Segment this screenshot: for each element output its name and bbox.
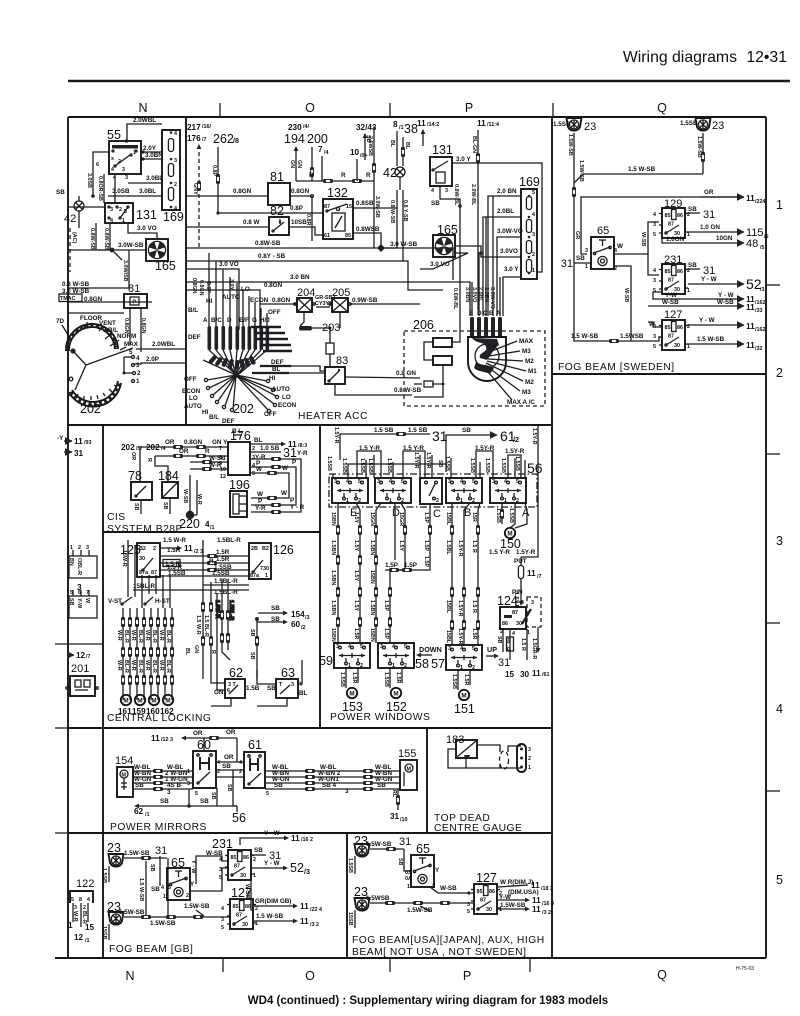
svg-text:Y - W: Y - W — [718, 292, 734, 299]
svg-text:V-ST: V-ST — [108, 598, 122, 605]
svg-text:/2: /2 — [301, 625, 306, 631]
junction diamond W-SB — [377, 241, 418, 252]
bar letters — [203, 317, 270, 324]
svg-text:4: 4 — [653, 212, 656, 218]
svg-text:W-R: W-R — [158, 660, 164, 671]
arrow 11/224 — [700, 194, 766, 205]
svg-text:OR: OR — [130, 452, 136, 460]
wire 3.0W-SB to fan — [68, 242, 146, 260]
wire 231 Y-W to 52/3 — [252, 860, 310, 876]
svg-text:31: 31 — [399, 836, 411, 848]
left column separator stubs — [55, 727, 68, 729]
svg-text:W-SB: W-SB — [182, 489, 188, 503]
svg-text:2: 2 — [153, 546, 156, 552]
svg-text:1.5P: 1.5P — [385, 562, 398, 569]
node GR riser — [574, 189, 744, 254]
ignition connector bundle E D C B A — [464, 196, 502, 337]
svg-text:M2: M2 — [525, 358, 534, 365]
bottom wire to 127 — [366, 895, 474, 914]
svg-text:R: R — [146, 458, 152, 462]
connector on lamp23L wire — [572, 187, 576, 197]
svg-text:SB: SB — [254, 847, 263, 854]
wires 131 bottom down — [89, 223, 110, 250]
wire W R(DIM J) to 11/183 — [498, 879, 553, 896]
svg-text:M3: M3 — [522, 348, 531, 355]
svg-text:1.5Y-R: 1.5Y-R — [475, 445, 495, 452]
svg-text:W-R: W-R — [116, 660, 122, 671]
svg-text:1.5R: 1.5R — [351, 672, 357, 683]
svg-text:0.8GN: 0.8GN — [264, 282, 283, 289]
svg-text:Y-W: Y-W — [499, 894, 511, 901]
svg-text:86: 86 — [502, 621, 508, 627]
svg-text:87a: 87a — [250, 573, 260, 579]
svg-text:TMAC: TMAC — [60, 296, 76, 302]
node 11/12:3 feed OR — [151, 729, 237, 762]
svg-text:1.5Y-R: 1.5Y-R — [333, 427, 339, 444]
svg-text:1.5Y-R: 1.5Y-R — [531, 428, 537, 445]
rows 125-126 — [160, 537, 249, 577]
frame bottom — [55, 957, 766, 959]
wire 231 SB to 31 — [252, 847, 281, 862]
svg-text:1.5 W-SB: 1.5 W-SB — [628, 166, 656, 173]
fuses on 126 wires — [220, 610, 230, 643]
svg-text:0.8W-BL: 0.8W-BL — [453, 184, 459, 206]
link wires Y-R row1 — [357, 445, 525, 478]
svg-text:1.5 R: 1.5 R — [471, 600, 477, 613]
wire 169R pin1 3.0Y — [503, 266, 521, 316]
dummy switch C — [420, 478, 442, 520]
node SB junction — [249, 605, 310, 679]
svg-text:/8: /8 — [233, 136, 239, 145]
svg-text:R: R — [366, 172, 371, 179]
svg-text:B L: B L — [232, 428, 242, 435]
dashed box 206 — [404, 318, 545, 406]
relay 201 — [66, 676, 98, 696]
svg-text:127: 127 — [476, 871, 497, 885]
svg-text:12: 12 — [76, 651, 86, 660]
wire lamp to 65 — [124, 850, 167, 860]
riser from top lamp wire to bottom — [166, 858, 169, 919]
svg-text:BL-R: BL-R — [123, 660, 129, 673]
feed 32/43 — [356, 123, 377, 160]
svg-text:AUTO: AUTO — [184, 403, 202, 410]
svg-text:153: 153 — [342, 700, 363, 714]
svg-text:3.0W-SB: 3.0W-SB — [118, 242, 144, 249]
svg-text:126: 126 — [273, 543, 294, 557]
fuses on 62 columns — [184, 558, 224, 696]
svg-text:POWER MIRRORS: POWER MIRRORS — [110, 822, 207, 833]
staircase wires to right — [251, 327, 292, 351]
svg-text:SYSTEM B28F: SYSTEM B28F — [107, 524, 182, 535]
wire row OR to 176 pin7 — [130, 439, 228, 482]
wire 169R pin5 2.0BN — [488, 188, 521, 316]
window switch E — [332, 478, 368, 519]
feed 2.5WSB down — [367, 127, 380, 248]
svg-text:3.0Y: 3.0Y — [228, 279, 234, 290]
wire 231 pin1 down to 127 — [244, 874, 254, 910]
svg-text:11: 11 — [746, 303, 755, 312]
fog lamp 23 lower USA — [347, 885, 370, 928]
svg-text:3: 3 — [86, 545, 89, 551]
svg-text:5: 5 — [266, 791, 269, 797]
svg-text:0.8GN: 0.8GN — [272, 297, 291, 304]
svg-text:0.8P: 0.8P — [205, 282, 211, 293]
feeds 230/194 200 — [284, 123, 328, 181]
svg-text:P: P — [465, 101, 473, 115]
svg-text:15GR: 15GR — [398, 512, 404, 526]
svg-text:87: 87 — [512, 610, 518, 616]
svg-text:6: 6 — [96, 162, 99, 168]
svg-text:3: 3 — [174, 158, 177, 164]
relay 132 — [323, 186, 353, 239]
relay 127 (sweden) — [649, 309, 690, 350]
wire 129 pin1 1.0GN to 115/5 — [688, 224, 769, 240]
wire 62/1 SB — [134, 788, 217, 818]
svg-text:BL-R: BL-R — [151, 630, 157, 643]
svg-text:3.0 BN: 3.0 BN — [290, 274, 310, 281]
svg-text:1.5SB: 1.5SB — [508, 508, 514, 523]
svg-text:7: 7 — [318, 145, 323, 154]
svg-text:162: 162 — [160, 707, 174, 716]
window switch A — [490, 478, 530, 519]
svg-text:B2: B2 — [139, 546, 146, 552]
svg-text:56: 56 — [232, 811, 246, 825]
wire 0.6W-BL down — [452, 206, 460, 331]
svg-text:165: 165 — [437, 223, 458, 237]
mirror switch 61 — [239, 738, 269, 797]
ignition switch 206 body — [468, 337, 506, 381]
svg-text:15BL: 15BL — [445, 630, 451, 644]
node 31 to sw65 — [561, 255, 591, 270]
svg-text:202: 202 — [121, 443, 135, 452]
node 12/7 201 — [68, 651, 91, 675]
svg-text:15SB: 15SB — [347, 912, 353, 926]
svg-text:GN: GN — [296, 160, 302, 168]
svg-text:SB: SB — [496, 636, 502, 644]
svg-text:DEF: DEF — [222, 418, 235, 425]
svg-text:10: 10 — [220, 467, 226, 473]
svg-text:2: 2 — [174, 182, 177, 188]
wire 65 pin2 to 231 — [190, 856, 228, 891]
svg-text:OFF: OFF — [264, 411, 277, 418]
feed 217/176 — [187, 123, 211, 250]
mirror motor 155 — [398, 748, 417, 790]
svg-text:1.5BN: 1.5BN — [330, 540, 336, 555]
svg-text:5: 5 — [124, 209, 127, 215]
hub — [233, 372, 239, 378]
relay 81 (mid) — [268, 170, 290, 205]
svg-text:11: 11 — [417, 119, 426, 128]
svg-text:4: 4 — [174, 131, 177, 137]
svg-text:11: 11 — [300, 917, 309, 926]
svg-text:SB: SB — [249, 652, 255, 660]
connector on lamp23R wire — [701, 152, 705, 162]
svg-text:W-SB: W-SB — [440, 885, 457, 892]
svg-text:1: 1 — [687, 232, 690, 238]
svg-text:1.5 W-SB: 1.5 W-SB — [571, 333, 599, 340]
svg-text:2: 2 — [776, 366, 783, 380]
svg-text:31: 31 — [155, 845, 167, 857]
svg-text:4: 4 — [776, 702, 783, 716]
svg-text:4: 4 — [221, 906, 224, 912]
dial contacts — [123, 349, 142, 385]
svg-text:BL: BL — [389, 140, 395, 148]
svg-text:31: 31 — [74, 449, 84, 458]
svg-text:55: 55 — [107, 128, 121, 142]
svg-text:GR: GR — [704, 189, 714, 196]
svg-text:65: 65 — [416, 842, 430, 856]
heater internal divider N/O — [185, 117, 187, 425]
svg-text:/3: /3 — [304, 867, 310, 876]
svg-text:4: 4 — [136, 355, 140, 362]
svg-text:1.5W-SB: 1.5W-SB — [150, 920, 176, 927]
wire row R to 176 pin8 — [146, 448, 228, 482]
DEF bar — [260, 359, 291, 366]
svg-text:/3: /3 — [305, 615, 310, 621]
svg-text:8: 8 — [79, 897, 82, 903]
svg-text:3.0W/SB: 3.0W/SB — [122, 260, 128, 282]
svg-text:5: 5 — [221, 925, 224, 931]
bar to hub converging wires — [209, 350, 267, 374]
svg-text:3.0W-VO: 3.0W-VO — [489, 287, 495, 309]
svg-text:5: 5 — [653, 344, 656, 350]
svg-text:0.8Y - SB: 0.8Y - SB — [258, 253, 286, 260]
svg-text:N: N — [138, 101, 147, 115]
svg-text:Y - W: Y - W — [701, 276, 717, 283]
motor 150 — [500, 528, 521, 551]
svg-text:H/J: H/J — [260, 317, 270, 324]
svg-text:1.5SB: 1.5SB — [212, 570, 230, 577]
svg-text:1.5 SB: 1.5 SB — [374, 427, 394, 434]
svg-text:NORM: NORM — [117, 333, 136, 340]
svg-text:4: 4 — [532, 212, 535, 218]
relay 127 GB — [221, 886, 258, 931]
svg-text:52: 52 — [290, 861, 304, 875]
dashed wire (AC) — [70, 228, 77, 272]
svg-text:1: 1 — [70, 545, 73, 551]
svg-text:/11:4: /11:4 — [487, 122, 499, 128]
feed 262/8 — [211, 132, 239, 213]
feed 10/0+ — [350, 148, 368, 181]
svg-text:GN: GN — [214, 689, 224, 696]
svg-text:BL-R: BL-R — [123, 630, 129, 643]
wire 3.0SB / 3.0BL row — [108, 188, 162, 196]
svg-text:SB: SB — [267, 685, 276, 692]
wire 169R pin4 2.0BL — [483, 208, 521, 316]
svg-text:60: 60 — [291, 620, 301, 629]
wire 127 pin1 1.5W-SB to 11/32 — [688, 336, 763, 352]
svg-text:0.8P: 0.8P — [290, 205, 303, 212]
svg-text:160: 160 — [146, 707, 160, 716]
svg-text:6: 6 — [78, 590, 81, 596]
svg-text:5: 5 — [653, 232, 656, 238]
svg-text:SB: SB — [149, 864, 155, 872]
svg-text:1.5W-SB: 1.5W-SB — [366, 841, 392, 848]
bus 0.8GN low — [186, 282, 283, 330]
svg-text:83: 83 — [336, 355, 348, 367]
svg-text:2.0P: 2.0P — [146, 356, 159, 363]
svg-text:HI: HI — [269, 375, 276, 382]
svg-text:3: 3 — [125, 175, 128, 181]
svg-text:SB: SB — [688, 206, 697, 213]
svg-text:82: 82 — [270, 204, 284, 218]
column ticks top — [219, 103, 221, 116]
svg-text:5: 5 — [532, 190, 535, 196]
svg-text:/4: /4 — [324, 150, 329, 156]
svg-text:65: 65 — [597, 225, 609, 237]
svg-text:GR: GR — [574, 231, 580, 239]
svg-text:31: 31 — [390, 812, 400, 821]
svg-text:217: 217 — [187, 123, 201, 132]
svg-text:SB: SB — [377, 782, 386, 789]
svg-text:10: 10 — [350, 148, 360, 157]
svg-text:11: 11 — [746, 341, 755, 350]
svg-text:5: 5 — [521, 600, 524, 606]
svg-text:OR: OR — [193, 730, 203, 737]
wire bottom 1.5W-SB lamps to 127 pin3 — [571, 333, 662, 341]
column ticks bottom — [222, 958, 224, 972]
svg-text:3: 3 — [531, 600, 534, 606]
svg-text:SB: SB — [271, 605, 280, 612]
DOWN / UP labels — [416, 645, 499, 658]
svg-text:1.5BN: 1.5BN — [369, 540, 375, 555]
connector 3 — [68, 545, 97, 592]
svg-text:1.5SB: 1.5SB — [484, 458, 490, 473]
svg-text:31: 31 — [283, 446, 297, 460]
svg-text:11: 11 — [74, 437, 83, 446]
206 internal wires — [414, 342, 445, 397]
frame left — [67, 117, 69, 958]
svg-text:/5: /5 — [760, 245, 765, 251]
svg-text:1: 1 — [585, 264, 588, 270]
svg-text:1.5W-SB: 1.5W-SB — [500, 902, 526, 909]
svg-text:BN: BN — [68, 558, 74, 566]
svg-text:W-R: W-R — [130, 660, 136, 671]
svg-text:122: 122 — [76, 878, 94, 890]
ignition switch label fan — [483, 341, 526, 400]
svg-text:2.0Y: 2.0Y — [143, 145, 157, 152]
svg-text:/1: /1 — [145, 812, 150, 818]
svg-text:/16 3: /16 3 — [542, 901, 554, 907]
wire 83 to 206 0.8GN — [345, 370, 420, 378]
svg-text:2B: 2B — [251, 546, 258, 552]
svg-text:203: 203 — [322, 322, 340, 334]
svg-text:AUTO: AUTO — [222, 294, 240, 301]
switch 65 GB — [151, 856, 195, 900]
svg-text:15SB: 15SB — [101, 926, 107, 940]
svg-text:SB: SB — [222, 763, 231, 770]
svg-text:230: 230 — [288, 123, 302, 132]
svg-text:3: 3 — [532, 232, 535, 238]
wire BL bar to 83 — [289, 372, 325, 374]
svg-text:BL-R: BL-R — [137, 660, 143, 673]
wire 132 right 0.8SB — [353, 200, 397, 208]
svg-text:10SB: 10SB — [291, 219, 307, 226]
svg-text:2: 2 — [119, 207, 122, 213]
svg-text:1.5R: 1.5R — [216, 556, 230, 563]
motor 152 — [383, 668, 407, 714]
svg-text:169: 169 — [519, 175, 540, 189]
connector on GNY wire — [197, 181, 201, 191]
svg-text:MAX: MAX — [519, 338, 534, 345]
relay 63 — [267, 666, 308, 698]
wire 0.8W-BL — [431, 184, 462, 208]
svg-text:/93: /93 — [84, 440, 92, 446]
svg-text:61: 61 — [324, 233, 330, 239]
svg-text:220: 220 — [179, 517, 200, 531]
R resistor row — [296, 172, 374, 183]
svg-text:1.0 SB: 1.0 SB — [260, 445, 280, 452]
svg-text:61: 61 — [248, 738, 262, 752]
wire Y-W top to 11/162 — [190, 830, 313, 874]
svg-text:3.0W-VO: 3.0W-VO — [497, 228, 523, 235]
wire row W-R to 176 pin10 — [190, 462, 228, 471]
svg-text:3: 3 — [167, 789, 171, 796]
actuator wire fuses — [121, 617, 174, 685]
wire run B pin5 / R — [478, 503, 480, 645]
svg-text:P: P — [463, 969, 471, 983]
svg-text:/3: /3 — [760, 287, 765, 293]
svg-text:152: 152 — [386, 700, 407, 714]
wire Y-W to 11/163 — [498, 894, 554, 907]
connector 5 6 7 — [68, 590, 97, 618]
svg-text:R: R — [209, 558, 214, 565]
svg-text:VENT: VENT — [99, 320, 116, 327]
switch 82 — [269, 204, 289, 235]
svg-text:GN: GN — [289, 160, 295, 168]
svg-text:31: 31 — [498, 657, 510, 669]
connector on 262 wire — [216, 174, 220, 184]
connector 196 — [229, 478, 250, 517]
svg-text:1.5R: 1.5R — [395, 672, 401, 683]
svg-text:2.0W-BL: 2.0W-BL — [470, 184, 476, 206]
relay 131 (left) — [105, 203, 157, 224]
svg-text:1.5BL-R: 1.5BL-R — [217, 537, 241, 544]
svg-text:2: 2 — [500, 629, 503, 635]
svg-text:30: 30 — [139, 556, 145, 562]
bus 3.0VO — [186, 261, 239, 330]
svg-text:1.5SB: 1.5SB — [347, 858, 353, 873]
relay 55 — [107, 128, 141, 181]
svg-text:/162: /162 — [755, 300, 766, 306]
svg-text:127: 127 — [231, 886, 252, 900]
svg-text:SB: SB — [226, 784, 232, 792]
frame top — [68, 116, 766, 118]
node junction 93,196 — [91, 194, 95, 198]
wire 129 pin2 SB to 31 — [688, 206, 715, 221]
svg-text:183: 183 — [446, 734, 464, 746]
wire 1.5W-SB joining lamps — [574, 166, 703, 183]
svg-text:/2: /2 — [513, 435, 519, 444]
svg-text:7: 7 — [219, 446, 222, 452]
left margin labels — [59, 281, 152, 303]
switch 78 — [128, 469, 152, 514]
svg-text:1.5W-SB: 1.5W-SB — [567, 134, 573, 156]
svg-text:0A: 0A — [405, 876, 412, 882]
bus 0.8W-SB — [186, 240, 453, 280]
svg-text:/33: /33 — [755, 308, 763, 314]
svg-text:1.5 Y-R: 1.5 Y-R — [489, 549, 510, 556]
wire 0.8GN to 204 — [260, 297, 297, 304]
svg-text:1.5Y-R: 1.5Y-R — [413, 452, 419, 469]
frame right — [765, 117, 767, 958]
svg-text:7D: 7D — [56, 318, 65, 325]
wire W-SB vertical 129->231 — [640, 232, 659, 275]
svg-text:/8:3: /8:3 — [298, 443, 307, 449]
svg-text:1.5BL: 1.5BL — [445, 540, 451, 555]
svg-text:0.6W-BL: 0.6W-BL — [452, 288, 458, 310]
svg-text:MAX: MAX — [124, 341, 139, 348]
